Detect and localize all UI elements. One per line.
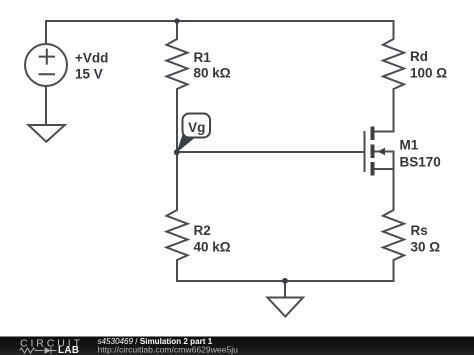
svg-text:R2: R2: [194, 223, 211, 238]
svg-text:+Vdd: +Vdd: [75, 51, 108, 66]
svg-text:40 kΩ: 40 kΩ: [194, 240, 231, 255]
svg-text:Rd: Rd: [410, 49, 428, 64]
svg-text:M1: M1: [400, 138, 419, 153]
svg-text:LAB: LAB: [58, 345, 79, 355]
svg-text:http://circuitlab.com/cmw6629w: http://circuitlab.com/cmw6629wee5ju: [98, 345, 239, 355]
svg-text:BS170: BS170: [400, 155, 441, 170]
svg-text:80 kΩ: 80 kΩ: [194, 66, 231, 81]
svg-text:30 Ω: 30 Ω: [411, 240, 441, 255]
svg-text:R1: R1: [194, 50, 212, 65]
svg-text:Rs: Rs: [411, 223, 428, 238]
svg-text:100 Ω: 100 Ω: [410, 66, 447, 81]
svg-text:15 V: 15 V: [75, 66, 103, 81]
svg-text:Vg: Vg: [188, 120, 205, 135]
